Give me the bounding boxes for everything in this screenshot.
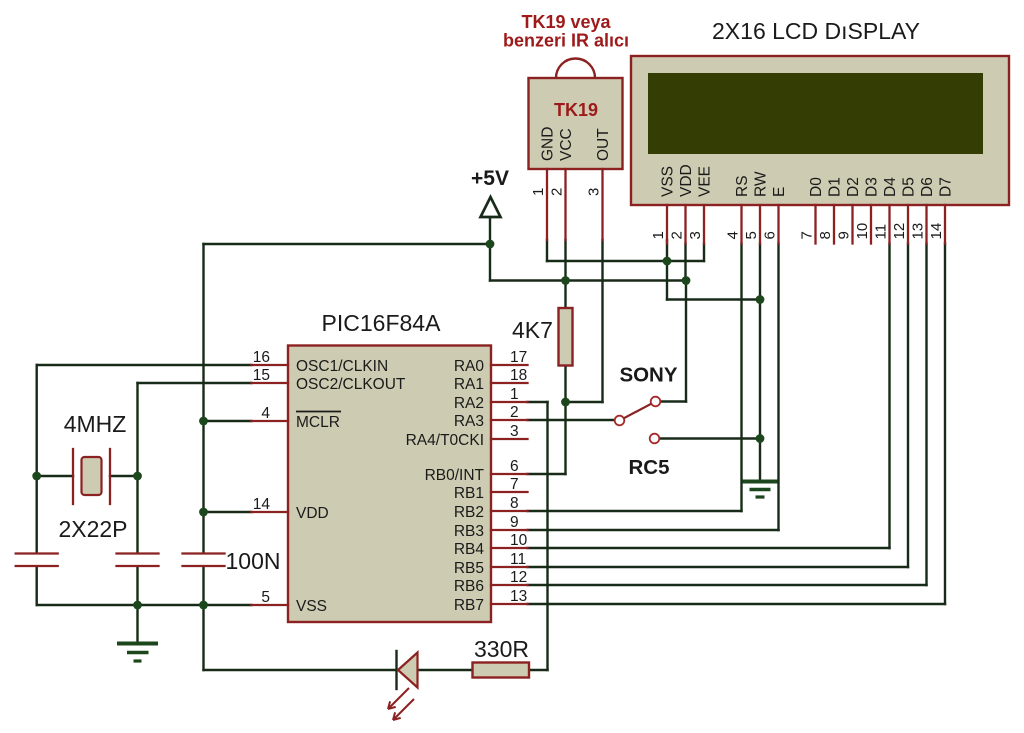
svg-text:7: 7 — [510, 476, 519, 493]
resistor R1 4K7 — [559, 308, 573, 366]
svg-text:2X16 LCD DıSPLAY: 2X16 LCD DıSPLAY — [712, 18, 920, 44]
svg-text:4MHZ: 4MHZ — [64, 411, 127, 437]
svg-text:330R: 330R — [474, 636, 529, 662]
LED D1 — [388, 651, 418, 720]
LCD screen area — [648, 73, 983, 154]
junction node IR OUT / RB0 / 4K7 — [561, 398, 570, 407]
wire RB0 wire — [528, 473, 566, 475]
U1 pin 5 (VSS) stub — [252, 604, 289, 606]
SW1 pole contact — [615, 416, 625, 426]
wire E vertical — [777, 244, 779, 531]
wire RB2 wire — [528, 510, 742, 512]
svg-text:D6: D6 — [919, 177, 936, 197]
U1 pin 14 (VDD) stub — [252, 511, 289, 513]
svg-text:5: 5 — [743, 231, 760, 239]
wire SONY contact wire — [661, 400, 686, 402]
svg-text:10: 10 — [854, 223, 871, 240]
svg-text:RC5: RC5 — [628, 456, 669, 479]
LCD1 pin 12 (D5) stub — [907, 205, 909, 244]
capacitor C2 22p — [117, 554, 159, 567]
svg-text:VDD: VDD — [296, 505, 329, 522]
junction node RC5 ground — [756, 434, 765, 443]
junction node MCLR rail — [199, 417, 208, 426]
svg-text:1: 1 — [510, 386, 519, 403]
capacitor C3 100N — [183, 554, 225, 567]
wire crystal left wire — [37, 475, 73, 477]
SW1 SONY throw contact — [651, 397, 661, 407]
svg-text:D1: D1 — [827, 177, 844, 197]
crystal X1 4MHZ — [73, 449, 110, 504]
wire RB6 wire — [528, 584, 927, 586]
svg-text:VSS: VSS — [296, 598, 327, 615]
svg-text:TK19 veya: TK19 veya — [521, 12, 611, 32]
wire crystal right wire — [110, 475, 138, 477]
wire RB0 vertical — [564, 402, 566, 474]
LCD display LCD1 2x16 — [631, 56, 1009, 244]
wire rail x=36 lower — [36, 567, 38, 605]
wire RB4 wire — [528, 547, 890, 549]
svg-text:1: 1 — [650, 231, 667, 239]
junction node crystal left — [32, 472, 41, 481]
wire RA3 wire to switch pole — [528, 419, 615, 421]
svg-text:RB4: RB4 — [454, 541, 485, 558]
LCD1 pin 5 (RW) stub — [759, 205, 761, 244]
svg-text:OSC1/CLKIN: OSC1/CLKIN — [296, 358, 388, 375]
svg-text:12: 12 — [510, 569, 527, 586]
svg-text:3: 3 — [510, 423, 519, 440]
svg-text:11: 11 — [510, 551, 526, 568]
svg-text:OUT: OUT — [595, 128, 612, 161]
wire ground bus horizontal — [37, 604, 252, 606]
U1 pin 13 (RB7) stub — [491, 603, 528, 605]
svg-text:benzeri IR alıcı: benzeri IR alıcı — [503, 31, 629, 51]
LCD1 pin 9 (D2) stub — [851, 205, 853, 244]
U1 pin 16 (OSC1/CLKIN) stub — [252, 364, 289, 366]
svg-text:RB3: RB3 — [454, 523, 484, 540]
microcontroller U1 PIC16F84A — [252, 346, 528, 623]
svg-text:4: 4 — [725, 231, 742, 239]
ground symbol (left, near C2) — [117, 644, 158, 662]
svg-text:2: 2 — [510, 404, 519, 421]
svg-text:TK19: TK19 — [554, 100, 598, 120]
svg-text:10: 10 — [510, 532, 528, 549]
svg-text:6: 6 — [510, 458, 519, 475]
junction node VDD rail — [199, 508, 208, 517]
svg-text:VSS: VSS — [660, 166, 677, 197]
wire LCD VDD wire — [684, 244, 686, 281]
wire D6 vertical — [925, 244, 927, 586]
svg-text:7: 7 — [799, 231, 816, 239]
junction node VCC rail tap — [561, 276, 570, 285]
wire LCD VSS wire — [666, 240, 668, 261]
wire +5V rail down segment — [489, 244, 491, 281]
LCD1 pin 11 (D4) stub — [888, 205, 890, 244]
wire D5 vertical — [907, 244, 909, 568]
wire left rail lower to LED row (x=203) — [202, 567, 204, 670]
U1 pin 8 (RB2) stub — [491, 510, 528, 512]
LCD1 pin 6 (E) stub — [777, 205, 779, 244]
svg-text:+5V: +5V — [471, 167, 509, 190]
wire 4K7 bottom wire — [564, 366, 566, 403]
wire 4K7 top wire — [564, 281, 566, 309]
svg-text:14: 14 — [928, 223, 945, 240]
svg-text:9: 9 — [510, 514, 519, 531]
wire LED left wire — [204, 669, 397, 671]
U2 pin 2 (VCC) stub — [564, 169, 566, 240]
svg-text:RB1: RB1 — [454, 485, 484, 502]
svg-text:RW: RW — [753, 171, 770, 197]
junction node LCD VSS ground — [663, 257, 672, 266]
LCD1 pin 2 (VDD) stub — [684, 205, 686, 244]
wire LCD RW ground vertical — [759, 244, 761, 481]
U1 pin 11 (RB5) stub — [491, 566, 528, 568]
wire RC5 contact wire — [660, 437, 760, 439]
junction node RW ground — [756, 295, 765, 304]
svg-text:RB0/INT: RB0/INT — [425, 467, 485, 484]
svg-text:8: 8 — [817, 231, 834, 239]
svg-text:VCC: VCC — [558, 128, 575, 161]
svg-text:GND: GND — [540, 127, 557, 161]
wire rail x=137 lower to ground — [136, 567, 138, 642]
SW1 lever — [624, 404, 651, 418]
wire LED to 330R wire — [418, 669, 473, 671]
U1 pin 7 (RB1) stub — [491, 491, 528, 493]
wire ground jog vertical — [666, 261, 668, 300]
label: TK19 veya benzeri IR alici (title) — [503, 12, 629, 51]
wire IR OUT horizontal — [566, 401, 603, 403]
LCD1 pin 1 (VSS) stub — [666, 205, 668, 244]
svg-text:3: 3 — [586, 188, 603, 196]
svg-text:PIC16F84A: PIC16F84A — [322, 310, 442, 336]
svg-text:17: 17 — [510, 349, 527, 366]
wire left +5V rail upper (x=203) — [202, 244, 204, 553]
wire VDD wire — [204, 511, 252, 513]
U1 pin 17 (RA0) stub — [491, 364, 528, 366]
svg-text:100N: 100N — [226, 548, 281, 574]
wire +5V rail to LCD VDD — [490, 279, 686, 281]
svg-text:RB5: RB5 — [454, 560, 484, 577]
wire OSC2 wire — [138, 382, 252, 384]
wire ground jog horizontal — [667, 298, 760, 300]
wire TK19 GND wire down — [546, 240, 548, 261]
svg-text:E: E — [771, 187, 788, 197]
svg-text:15: 15 — [253, 367, 270, 384]
svg-text:D0: D0 — [808, 177, 825, 197]
LED triangle — [398, 653, 418, 688]
svg-text:3: 3 — [687, 231, 704, 239]
svg-text:RB2: RB2 — [454, 504, 484, 521]
svg-text:RS: RS — [734, 175, 751, 197]
U1 pin 12 (RB6) stub — [491, 584, 528, 586]
svg-text:RA4/T0CKI: RA4/T0CKI — [406, 432, 484, 449]
svg-text:VDD: VDD — [678, 164, 695, 197]
svg-text:11: 11 — [873, 224, 890, 240]
svg-text:RA1: RA1 — [454, 376, 484, 393]
LED arrow 2 — [393, 699, 414, 720]
svg-text:4: 4 — [261, 405, 270, 422]
svg-text:13: 13 — [910, 223, 927, 240]
svg-text:14: 14 — [253, 496, 271, 513]
svg-text:18: 18 — [510, 367, 527, 384]
svg-text:RA2: RA2 — [454, 395, 484, 412]
junction node ground C2 — [133, 601, 142, 610]
IR receiver U2 TK19 — [529, 59, 623, 241]
LCD1 pin 10 (D3) stub — [870, 205, 872, 244]
svg-text:2X22P: 2X22P — [58, 516, 127, 542]
wire RB5 wire — [528, 566, 909, 568]
wire +5V rail horizontal — [204, 243, 491, 245]
wire TK19 VCC wire — [564, 240, 566, 281]
wire RB3 wire — [528, 529, 779, 531]
U1 pin 2 (RA3) stub — [491, 419, 528, 421]
resistor R2 330R — [473, 663, 530, 678]
svg-text:1: 1 — [530, 188, 547, 196]
svg-text:2: 2 — [549, 188, 566, 196]
wire MCLR wire — [204, 420, 252, 422]
svg-text:4K7: 4K7 — [512, 317, 553, 343]
switch SW1 SONY/RC5 selector — [615, 397, 661, 444]
svg-text:5: 5 — [261, 589, 270, 606]
LCD1 pin 14 (D7) stub — [944, 205, 946, 244]
U1 pin 6 (RB0/INT) stub — [491, 473, 528, 475]
LCD1 pin 13 (D6) stub — [925, 205, 927, 244]
U2 pin 1 (GND) stub — [546, 169, 548, 240]
svg-text:D3: D3 — [864, 177, 881, 197]
wire rail x=137 upper — [136, 383, 138, 553]
wire D4 vertical — [888, 244, 890, 549]
svg-text:MCLR: MCLR — [296, 414, 340, 431]
U1 pin 18 (RA1) stub — [491, 382, 528, 384]
svg-text:8: 8 — [510, 495, 519, 512]
svg-text:D4: D4 — [882, 177, 899, 197]
SW1 RC5 throw contact — [650, 434, 660, 444]
wire RA2 wire — [528, 401, 548, 403]
capacitor C1 22p — [16, 554, 58, 567]
LCD1 pin 4 (RS) stub — [740, 205, 742, 244]
LED arrow 1 — [388, 688, 409, 709]
svg-text:16: 16 — [253, 349, 270, 366]
svg-text:D7: D7 — [938, 177, 955, 197]
wire RB7 wire — [528, 603, 946, 605]
svg-text:13: 13 — [510, 588, 527, 605]
wire IR OUT vertical — [601, 240, 603, 402]
svg-text:D5: D5 — [901, 177, 918, 197]
svg-text:VEE: VEE — [697, 166, 714, 197]
svg-text:6: 6 — [762, 231, 779, 239]
U1 pin 3 (RA4/T0CKI) stub — [491, 438, 528, 440]
wire RA2 vertical to LED — [546, 402, 548, 670]
power +5V symbol — [471, 167, 509, 217]
U1 pin 15 (OSC2/CLKOUT) stub — [252, 382, 289, 384]
U1 pin 10 (RB4) stub — [491, 547, 528, 549]
svg-text:SONY: SONY — [619, 364, 677, 387]
wire RS vertical — [740, 244, 742, 512]
LCD1 pin 3 (VEE) stub — [703, 205, 705, 244]
wire 330R right wire — [529, 669, 548, 671]
LCD1 pin 8 (D1) stub — [833, 205, 835, 244]
svg-text:2: 2 — [669, 231, 686, 239]
LCD1 pin 7 (D0) stub — [814, 205, 816, 244]
ground symbol (right, below RW) — [743, 482, 778, 498]
wire LCD ground horizontal — [547, 260, 704, 262]
wire SONY contact vertical to +5V — [685, 281, 687, 402]
junction node crystal right — [133, 472, 142, 481]
svg-text:D2: D2 — [845, 177, 862, 197]
junction node +5V — [486, 240, 495, 249]
U1 pin 1 (RA2) stub — [491, 401, 528, 403]
svg-text:RA3: RA3 — [454, 413, 484, 430]
svg-text:OSC2/CLKOUT: OSC2/CLKOUT — [296, 376, 406, 393]
wire OSC1 wire — [37, 364, 252, 366]
U1 pin 4 (MCLR) stub — [252, 420, 289, 422]
wire LCD VEE wire — [703, 244, 705, 262]
svg-text:12: 12 — [891, 223, 908, 240]
svg-text:RB7: RB7 — [454, 597, 484, 614]
svg-text:RB6: RB6 — [454, 578, 484, 595]
wire rail x=36 upper — [36, 365, 38, 553]
svg-text:RA0: RA0 — [454, 358, 485, 375]
U1 pin 9 (RB3) stub — [491, 529, 528, 531]
LED cathode bar — [395, 651, 397, 689]
wire D7 vertical — [944, 244, 946, 605]
junction node ground C3 — [199, 601, 208, 610]
junction node LCD VDD tap — [682, 276, 691, 285]
U1 MCLR overline — [296, 411, 341, 413]
svg-text:9: 9 — [836, 231, 853, 239]
wire +5V symbol stem — [489, 217, 491, 244]
U2 pin 3 (OUT) stub — [601, 169, 603, 240]
